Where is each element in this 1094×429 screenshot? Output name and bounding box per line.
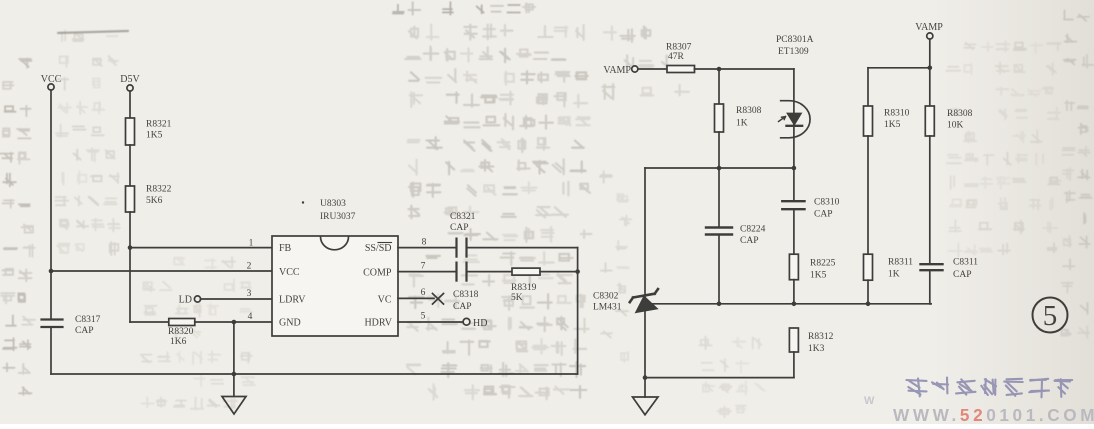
resistor R8312	[789, 328, 798, 352]
svg-text:10K: 10K	[947, 121, 964, 131]
terminal D5V	[127, 85, 133, 91]
capacitor C8224	[718, 168, 720, 228]
svg-text:HDRV: HDRV	[364, 318, 392, 329]
figure number circled 5	[1033, 298, 1068, 333]
svg-text:3: 3	[247, 289, 252, 299]
node C8224 top junction	[717, 166, 722, 171]
svg-text:GND: GND	[279, 318, 301, 329]
capacitor C8318	[455, 263, 457, 281]
resistor R8322	[126, 186, 135, 212]
svg-text:1K6: 1K6	[170, 337, 187, 347]
svg-text:1K5: 1K5	[146, 131, 163, 141]
svg-text:1K5: 1K5	[810, 271, 827, 281]
svg-text:R8321: R8321	[146, 120, 172, 130]
wire to left branch	[868, 67, 930, 69]
wire R8319 to rail	[540, 271, 578, 273]
svg-text:CAP: CAP	[75, 326, 93, 336]
node GND junction	[232, 320, 237, 325]
wire pin 7 COMP	[398, 271, 457, 273]
svg-text:VAMP: VAMP	[915, 22, 943, 33]
svg-text:R8320: R8320	[168, 327, 194, 337]
node LM431 anode junction	[643, 375, 648, 380]
node R8225-R8312 junction	[792, 302, 797, 307]
wire middle bottom rail	[645, 377, 794, 379]
svg-text:C8224: C8224	[740, 225, 766, 235]
capacitor C8310	[793, 168, 795, 201]
svg-text:ET1309: ET1309	[778, 47, 809, 57]
svg-text:HD: HD	[473, 318, 487, 329]
svg-text:CAP: CAP	[453, 302, 471, 312]
svg-text:R8308: R8308	[947, 109, 973, 119]
svg-text:C8317: C8317	[75, 315, 101, 325]
svg-text:R8319: R8319	[511, 283, 537, 293]
wire middle top rail	[645, 167, 794, 169]
resistor R8311	[864, 254, 873, 280]
node R8311 bottom junction	[866, 302, 871, 307]
svg-text:5: 5	[421, 312, 426, 322]
svg-text:IRU3037: IRU3037	[320, 212, 356, 222]
svg-text:CAP: CAP	[450, 223, 468, 233]
node bottom rail junction	[232, 372, 237, 377]
wire pin 4 GND	[195, 321, 272, 323]
svg-text:1K5: 1K5	[884, 120, 901, 130]
svg-text:VCC: VCC	[41, 74, 62, 85]
svg-text:47R: 47R	[668, 52, 685, 62]
svg-text:VC: VC	[378, 295, 392, 306]
wire GND to ground	[233, 322, 235, 396]
wire D5V to R8321	[129, 91, 131, 118]
wire pin 1 FB	[130, 247, 272, 249]
wire R8322 down D5V rail	[129, 212, 131, 322]
svg-text:VAMP: VAMP	[603, 65, 631, 76]
svg-text:W: W	[864, 395, 875, 407]
svg-text:FB: FB	[279, 243, 292, 254]
wire pin 2 VCC	[51, 270, 272, 272]
resistor R8319	[512, 268, 540, 275]
resistor R8307	[667, 66, 695, 73]
svg-text:R8322: R8322	[146, 185, 172, 195]
svg-text:5K: 5K	[511, 293, 523, 303]
svg-text:PC8301A: PC8301A	[776, 35, 814, 45]
wire VAMP right rail	[929, 39, 931, 106]
svg-text:7: 7	[421, 262, 426, 272]
ground symbol middle	[633, 397, 659, 415]
svg-text:1: 1	[249, 239, 254, 249]
svg-text:4: 4	[248, 312, 253, 322]
node VCC-pin2 junction	[49, 269, 54, 274]
wire reference rail	[645, 303, 931, 305]
wire VCC rail	[50, 90, 52, 320]
svg-text:R8307: R8307	[666, 43, 692, 53]
wire pin 6 VC stub	[398, 297, 434, 299]
watermark logo text	[906, 378, 1072, 398]
wire pin 5 HDRV	[398, 321, 463, 323]
wire right rail	[577, 248, 579, 374]
svg-text:C8310: C8310	[814, 198, 840, 208]
wire pin 8 SS/SD	[398, 247, 457, 249]
wire D5V rail to R8320	[130, 321, 169, 323]
node opto cathode junction	[792, 166, 797, 171]
svg-text:LD: LD	[179, 295, 192, 306]
resistor R8225	[789, 254, 798, 280]
wire LM431 cathode rail	[644, 168, 646, 378]
svg-text:R8311: R8311	[888, 258, 913, 268]
svg-text:R8310: R8310	[884, 109, 910, 119]
svg-text:1K: 1K	[736, 119, 748, 129]
wire left branch down	[867, 68, 869, 106]
svg-text:C8302: C8302	[593, 292, 619, 302]
wire R8307 to optocoupler	[695, 68, 794, 70]
wire R8308 to C8311	[929, 136, 931, 264]
node VAMP divider junction	[928, 66, 933, 71]
svg-text:WWW.520101.COM: WWW.520101.COM	[893, 405, 1094, 424]
no-connect X on pin 6	[433, 294, 444, 305]
resistor R8308 10K	[925, 106, 934, 136]
IC U8303 IRU3037	[272, 236, 398, 336]
node C8224 bottom junction	[717, 302, 722, 307]
svg-text:CAP: CAP	[740, 236, 758, 246]
svg-text:C8318: C8318	[453, 290, 479, 300]
node FB junction on D5V rail	[128, 245, 133, 250]
wire C8311 to rail corner	[929, 270, 931, 304]
wire pin 3 LDRV	[201, 298, 273, 300]
wire R8311 to rail	[867, 280, 869, 304]
wire C8321 to rail	[467, 247, 578, 249]
wire bottom rail	[51, 373, 578, 375]
node COMP rail junction	[575, 269, 580, 274]
resistor R8321	[126, 118, 135, 145]
svg-text:C8311: C8311	[953, 258, 978, 268]
wire VAMP to R8307	[638, 68, 667, 70]
capacitor C8321	[455, 239, 457, 257]
svg-text:R8308: R8308	[736, 106, 762, 116]
ground symbol left	[222, 397, 246, 415]
terminal VCC	[48, 84, 54, 90]
wire C8317 to bottom rail	[50, 327, 52, 374]
resistor R8308	[718, 69, 720, 104]
svg-text:6: 6	[421, 288, 426, 298]
svg-text:VCC: VCC	[279, 267, 300, 278]
wire R8321 to R8322	[129, 145, 131, 186]
capacitor C8311	[921, 263, 943, 265]
wire to middle ground	[644, 378, 646, 397]
svg-text:C8321: C8321	[450, 212, 476, 222]
resistor R8320	[169, 319, 195, 326]
svg-text:5: 5	[1043, 300, 1058, 332]
svg-text:SS/SD: SS/SD	[365, 243, 392, 254]
svg-text:COMP: COMP	[363, 268, 392, 279]
wire C8318 to R8319	[467, 271, 513, 273]
svg-text:R8225: R8225	[810, 259, 836, 269]
svg-text:8: 8	[422, 238, 427, 248]
terminal HD	[463, 318, 470, 325]
wire R8310 to R8311	[867, 136, 869, 254]
svg-text:5K6: 5K6	[146, 196, 163, 206]
node R8308 top junction	[717, 67, 722, 72]
svg-text:1K3: 1K3	[808, 344, 825, 354]
svg-text:R8312: R8312	[808, 332, 834, 342]
svg-text:LDRV: LDRV	[279, 295, 306, 306]
svg-text:D5V: D5V	[120, 74, 140, 85]
svg-text:U8303: U8303	[320, 199, 346, 209]
svg-text:1K: 1K	[888, 270, 900, 280]
capacitor C8317	[42, 318, 63, 320]
svg-text:LM431: LM431	[593, 303, 622, 313]
svg-text:CAP: CAP	[814, 210, 832, 220]
svg-text:2: 2	[247, 262, 252, 272]
resistor R8310	[864, 106, 873, 136]
svg-text:CAP: CAP	[953, 270, 971, 280]
